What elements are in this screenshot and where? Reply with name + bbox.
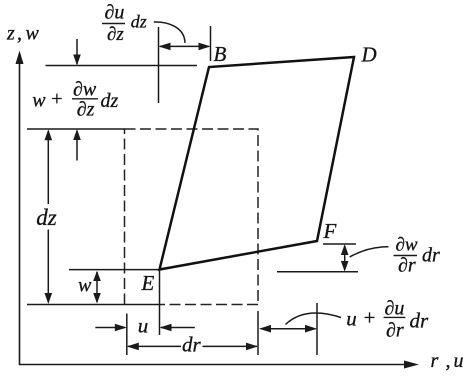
svg-text:∂u: ∂u — [385, 298, 405, 320]
svg-text:F: F — [323, 219, 337, 243]
tick above F — [323, 243, 356, 245]
svg-text:+: + — [362, 306, 376, 330]
tick right of top dimension — [210, 26, 212, 61]
label w + dw/dz dz — [32, 78, 118, 120]
w + dw/dz dz upper arrow — [76, 39, 78, 64]
svg-text:dz: dz — [36, 205, 57, 230]
dashed rectangle (original element) — [125, 129, 259, 305]
z axis arrowhead — [16, 51, 24, 65]
extension line at E level — [69, 269, 161, 271]
tick left of top dimension — [158, 27, 160, 103]
svg-text:dr: dr — [182, 333, 202, 357]
label u + du/dr dr — [346, 298, 429, 342]
label dw/dr dr — [396, 234, 441, 276]
svg-text:dr: dr — [410, 309, 430, 333]
parallelogram EBDF (deformed element) — [160, 57, 355, 270]
z axis — [19, 62, 21, 365]
leader for dw/dr dr — [350, 247, 389, 257]
w dimension double arrow — [96, 272, 98, 302]
svg-text:∂r: ∂r — [398, 255, 416, 277]
svg-text:r,u: r,u — [431, 350, 464, 372]
leader for u + du/dr dr — [285, 313, 341, 324]
tick right of rect lower — [257, 311, 259, 355]
svg-text:∂r: ∂r — [386, 320, 404, 342]
dw/dr dr dimension double arrow — [344, 246, 346, 270]
svg-text:∂w: ∂w — [73, 78, 97, 100]
leader arc for du/dz dz — [154, 22, 185, 43]
svg-text:u: u — [138, 314, 149, 338]
svg-text:u: u — [346, 307, 357, 331]
svg-text:∂u: ∂u — [105, 1, 125, 23]
svg-text:w: w — [78, 275, 92, 297]
svg-text:E: E — [141, 271, 155, 295]
svg-text:dz: dz — [101, 90, 119, 112]
extension line at B level — [46, 65, 198, 67]
floor extension line — [27, 304, 161, 306]
svg-text:D: D — [361, 43, 377, 67]
svg-text:w: w — [32, 89, 46, 111]
svg-text:∂z: ∂z — [77, 98, 95, 120]
svg-text:∂z: ∂z — [107, 24, 124, 45]
r axis arrowhead — [404, 361, 419, 369]
tick below F level — [277, 271, 358, 273]
u dimension left arrow — [95, 327, 125, 329]
dimension du/dz dz double arrow — [160, 45, 209, 47]
svg-text:+: + — [50, 88, 64, 110]
u + du/dr dr dimension double arrow — [261, 328, 316, 330]
label du/dz dz — [105, 1, 147, 45]
tick below F — [316, 303, 318, 355]
tick left lower — [126, 314, 128, 356]
w + dw/dz dz lower arrow — [76, 131, 78, 161]
dz dimension line — [47, 131, 49, 204]
svg-text:∂w: ∂w — [396, 234, 418, 255]
svg-text:dr: dr — [422, 244, 440, 266]
u dimension right arrow — [161, 327, 195, 329]
svg-text:B: B — [214, 42, 227, 66]
r axis — [19, 364, 406, 366]
tick below E — [159, 270, 161, 336]
extension line at rect top level — [27, 128, 125, 130]
dr dimension — [128, 345, 181, 347]
svg-text:dz: dz — [131, 12, 147, 32]
